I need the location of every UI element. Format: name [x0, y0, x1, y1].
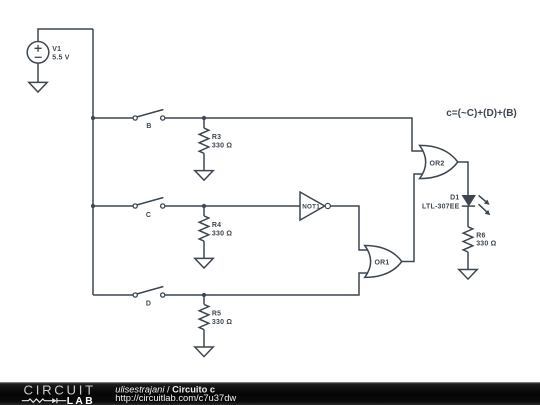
label R3 designator	[212, 134, 221, 141]
svg-text:D: D	[146, 301, 151, 308]
svg-text:D1: D1	[450, 195, 459, 202]
junction: row C and R4	[202, 204, 206, 208]
svg-text:R6: R6	[476, 233, 485, 240]
footer CircuitLab logo text CIRCUIT	[24, 382, 96, 397]
svg-text:330 Ω: 330 Ω	[212, 319, 232, 326]
svg-text:5.5 V: 5.5 V	[52, 54, 69, 61]
inverter NOT1	[300, 192, 330, 220]
label R5 value 330 ohm	[212, 319, 232, 326]
label switch C	[146, 212, 151, 219]
label D1 designator	[450, 195, 459, 202]
label V1 designator	[52, 46, 61, 53]
footer CircuitLab logo schematic squiggle	[22, 398, 66, 403]
wire: row B left segment	[93, 117, 133, 119]
or-gate OR2	[420, 145, 458, 178]
junction: rail and row B	[91, 116, 95, 120]
junction: rail and row C	[91, 204, 95, 208]
wire: R4 bottom stem to ground	[203, 241, 205, 258]
wire: row B right segment to OR2 input A	[165, 118, 423, 151]
wire: R5 top stem	[203, 295, 205, 304]
wire: V1 positive terminal to top rail	[38, 29, 93, 41]
svg-text:330 Ω: 330 Ω	[476, 241, 496, 248]
wire: OR2 output to LED D1	[458, 162, 468, 196]
ground below R3	[195, 171, 213, 181]
footer author / title line	[115, 385, 215, 395]
footer bar	[0, 382, 540, 405]
label R6 designator	[476, 233, 485, 240]
ground below R4	[195, 258, 213, 268]
resistor R5	[199, 304, 209, 329]
ground below R5	[195, 347, 213, 357]
label OR1	[375, 259, 390, 266]
switch C	[133, 198, 165, 209]
LED D1 emission arrow 1	[479, 195, 490, 205]
label R4 designator	[212, 222, 221, 229]
resistor R6	[463, 227, 473, 252]
wire: R3 bottom stem to ground	[203, 153, 205, 170]
resistor R4	[199, 216, 209, 241]
label D1 part LTL-307EE	[422, 204, 460, 211]
wire: LED D1 cathode to R6	[467, 206, 469, 227]
label switch B	[146, 123, 151, 130]
or-gate OR1	[365, 246, 402, 278]
footer url line	[115, 392, 236, 403]
svg-text:LTL-307EE: LTL-307EE	[422, 204, 460, 211]
label R3 value 330 ohm	[212, 143, 232, 150]
switch B	[133, 110, 165, 121]
svg-text:R4: R4	[212, 222, 221, 229]
wire: left vertical rail	[92, 29, 94, 295]
wire: R4 top stem	[203, 206, 205, 216]
junction: row D and R5	[202, 293, 206, 297]
wire: OR1 output to OR2 input B	[402, 174, 423, 262]
ground below R6	[459, 270, 477, 280]
wire: R6 to ground	[467, 252, 469, 270]
voltage source V1	[27, 42, 49, 64]
svg-text:330 Ω: 330 Ω	[212, 230, 232, 237]
label R6 value 330 ohm	[476, 241, 496, 248]
svg-text:V1: V1	[52, 46, 61, 53]
svg-text:OR1: OR1	[375, 259, 390, 266]
LED D1 emission arrow 2	[479, 204, 491, 215]
wire: row C left segment	[93, 205, 133, 207]
wire: R5 bottom stem to ground	[203, 330, 205, 347]
footer CircuitLab logo text LAB	[67, 396, 95, 405]
svg-text:OR2: OR2	[430, 160, 445, 167]
svg-text:B: B	[146, 123, 151, 130]
junction: row B and R3	[202, 116, 206, 120]
label R4 value 330 ohm	[212, 230, 232, 237]
svg-text:R3: R3	[212, 134, 221, 141]
wire: row D right segment to OR1 input B	[165, 273, 369, 295]
wire: NOT1 output to OR1 input A	[331, 206, 370, 250]
svg-text:http://circuitlab.com/c7u37dw: http://circuitlab.com/c7u37dw	[115, 392, 236, 403]
svg-text:330 Ω: 330 Ω	[212, 143, 232, 150]
LED D1	[462, 196, 475, 206]
label switch D	[146, 301, 151, 308]
svg-text:LAB: LAB	[67, 396, 95, 405]
label V1 value 5.5 V	[52, 54, 69, 61]
label NOT1	[302, 204, 320, 211]
wire: row D left segment	[93, 294, 133, 296]
svg-text:C: C	[146, 212, 151, 219]
wire: R3 top stem	[203, 118, 205, 128]
ground below V1	[29, 82, 47, 92]
wire: V1 negative terminal to ground	[37, 63, 39, 82]
svg-text:NOT1: NOT1	[302, 204, 320, 211]
svg-text:R5: R5	[212, 310, 221, 317]
label R5 designator	[212, 310, 221, 317]
switch D	[133, 287, 165, 298]
resistor R3	[199, 128, 209, 153]
node equation c=(~C)+(D)+(B)	[446, 108, 517, 119]
wire: row C right segment to NOT1 input	[165, 205, 300, 207]
svg-text:c=(~C)+(D)+(B): c=(~C)+(D)+(B)	[446, 108, 517, 119]
label OR2	[430, 160, 445, 167]
